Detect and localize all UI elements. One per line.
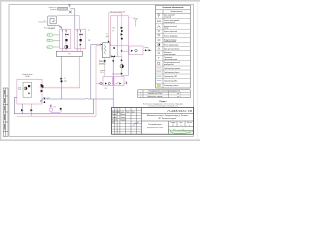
svg-text:Инженерное оборудование, сети: Инженерное оборудование, сети и системы.… — [143, 103, 183, 105]
svg-text:Дата: Дата — [132, 111, 135, 113]
svg-text:Воздухоотводчик: Воздухоотводчик — [164, 39, 177, 41]
svg-text:Т 11: Т 11 — [47, 35, 50, 37]
svg-text:Сидоров: Сидоров — [120, 120, 126, 122]
svg-text:Лист: Лист — [179, 122, 183, 124]
svg-text:Т2: Т2 — [88, 30, 90, 32]
svg-text:Стадия: Стадия — [170, 122, 175, 124]
svg-text:ГИП: ГИП — [112, 122, 115, 124]
svg-text:Наименование: Наименование — [171, 11, 183, 13]
svg-text:Спецификация основного оборудо: Спецификация основного оборудования — [148, 90, 180, 93]
svg-text:Газопровод низкого: Газопровод низкого — [164, 85, 179, 87]
svg-text:шт. 1: шт. 1 — [177, 93, 181, 95]
svg-text:Н 1: Н 1 — [47, 47, 50, 49]
svg-text:датчиком: датчиком — [50, 9, 56, 11]
svg-text:Подп.: Подп. — [126, 111, 130, 113]
svg-text:Кран для манометра: Кран для манометра — [164, 49, 179, 51]
svg-text:Насосная группа: Насосная группа — [44, 27, 55, 29]
svg-text:ду25: ду25 — [64, 80, 67, 82]
svg-text:Тепловой пункт: Тепловой пункт — [148, 123, 162, 126]
svg-text:Манометр: Манометр — [164, 52, 172, 54]
svg-text:Т3: Т3 — [106, 34, 108, 36]
svg-text:Термометр: Термометр — [164, 57, 172, 59]
svg-text:Т 21: Т 21 — [47, 40, 50, 42]
svg-text:1: 1 — [181, 125, 182, 127]
svg-text:косвен.: косвен. — [100, 63, 105, 65]
svg-text:Петров: Петров — [120, 117, 125, 119]
svg-text:КП "Расковская дача": КП "Расковская дача" — [158, 118, 176, 120]
svg-text:ГазТеплоМонтаж: ГазТеплоМонтаж — [168, 129, 194, 133]
svg-text:Узел подпитки: Узел подпитки — [112, 74, 121, 76]
svg-text:Трубопровод подающ.: Трубопровод подающ. — [164, 68, 181, 70]
svg-text:Клапан предохран.: Клапан предохран. — [164, 35, 179, 37]
svg-text:Трубопровод обратн.: Трубопровод обратн. — [164, 72, 180, 74]
svg-text:1: 1 — [189, 125, 190, 127]
svg-text:Термостат с: Термостат с — [48, 7, 56, 9]
svg-text:принципиальная схема: принципиальная схема — [147, 127, 163, 129]
svg-text:Т2: Т2 — [64, 78, 66, 80]
svg-text:Выход: Выход — [145, 47, 149, 49]
svg-text:Московская область, Городской: Московская область, Городской округ д. Р… — [147, 114, 189, 117]
svg-text:№док.: №док. — [120, 111, 125, 113]
svg-text:Разраб.: Разраб. — [112, 114, 118, 116]
svg-text:Насос циркуляцион.: Насос циркуляцион. — [164, 45, 180, 47]
svg-text:П-АВ8/2022-ТМ: П-АВ8/2022-ТМ — [168, 109, 193, 113]
svg-text:Условные обозначения: Условные обозначения — [162, 6, 183, 9]
svg-text:СГБ: СГБ — [53, 106, 56, 108]
svg-text:Провер.: Провер. — [112, 117, 118, 119]
svg-text:Раздел: Раздел — [159, 101, 167, 103]
svg-text:24 кВт: 24 кВт — [25, 76, 30, 78]
svg-text:Листов: Листов — [187, 122, 192, 124]
svg-text:200 л: 200 л — [100, 72, 104, 74]
svg-text:Т3: Т3 — [112, 30, 114, 32]
svg-text:ду20: ду20 — [106, 36, 109, 38]
svg-text:Н.контр.: Н.контр. — [112, 120, 118, 122]
svg-text:ХВС: ХВС — [105, 88, 108, 90]
svg-text:Трубопровод ХВС: Трубопровод ХВС — [164, 80, 178, 82]
svg-text:шт. 1: шт. 1 — [177, 96, 181, 98]
svg-text:Трубопровод ГВС: Трубопровод ГВС — [164, 76, 178, 78]
svg-text:Иванов: Иванов — [120, 114, 125, 116]
svg-text:Насосная группа ГВС: Насосная группа ГВС — [110, 11, 126, 13]
svg-text:Отопление, вентиляция и теплов: Отопление, вентиляция и тепловые сети — [148, 105, 178, 107]
